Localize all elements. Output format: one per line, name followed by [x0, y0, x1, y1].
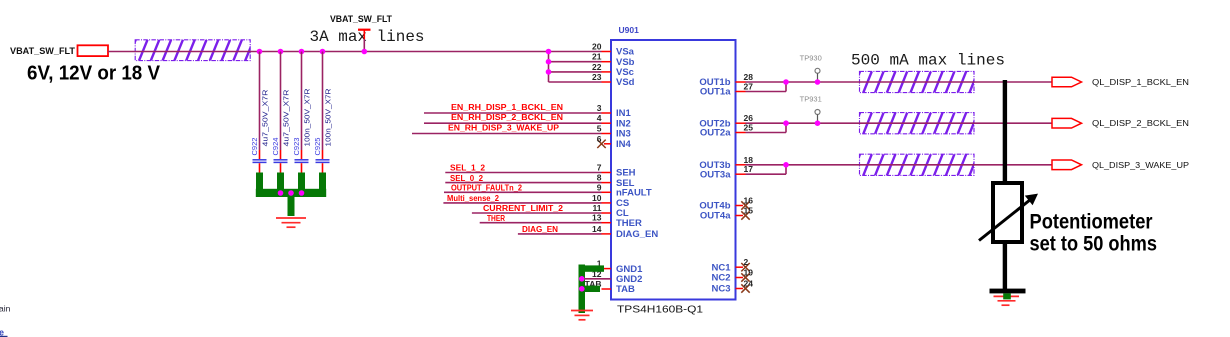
- pin 1 GND1: [597, 259, 643, 275]
- svg-text:QL_DISP_3_WAKE_UP: QL_DISP_3_WAKE_UP: [1092, 161, 1189, 170]
- capacitor C923 value 100n_50V_X7R: [292, 88, 312, 173]
- svg-text:20: 20: [592, 42, 602, 52]
- junction TP930: [815, 79, 821, 85]
- wire net EN_RH_DISP_2_BCKL_EN: [424, 122, 602, 124]
- junction VS branch top: [546, 49, 552, 55]
- svg-text:C923: C923: [292, 138, 301, 156]
- wire net THER: [480, 222, 602, 224]
- svg-text:19: 19: [744, 268, 754, 278]
- junctions on cap ground bus: [278, 190, 284, 196]
- wire rail down to C922: [259, 52, 261, 151]
- svg-text:TPS4H160B-Q1: TPS4H160B-Q1: [617, 304, 703, 316]
- pin 18 OUT3b: [699, 155, 753, 171]
- pin 9 nFAULT: [597, 182, 652, 198]
- svg-text:4: 4: [597, 113, 602, 123]
- svg-text:6V, 12V or 18 V: 6V, 12V or 18 V: [27, 63, 161, 85]
- ferrite bead (3A input line): [127, 40, 265, 61]
- pin 5 IN3: [597, 124, 631, 140]
- svg-text:CURRENT_LIMIT_2: CURRENT_LIMIT_2: [483, 204, 564, 213]
- power symbol VBAT_SW_FLT (bar): [330, 14, 392, 39]
- svg-text:VBAT_SW_FLT: VBAT_SW_FLT: [330, 14, 392, 25]
- ground symbol (U901 GND): [571, 311, 593, 320]
- wire rail down to C925: [322, 52, 324, 151]
- pin 10 CS: [592, 193, 629, 209]
- ground bar (thick black T): [990, 289, 1026, 294]
- pin 26 OUT2b: [699, 113, 753, 129]
- svg-text:OUT4a: OUT4a: [700, 211, 731, 222]
- pin 12 GND2: [592, 269, 642, 285]
- pin 11 CL: [593, 203, 629, 219]
- ground bus U901 (thick green): [579, 265, 605, 314]
- svg-text:QL_DISP_1_BCKL_EN: QL_DISP_1_BCKL_EN: [1092, 78, 1189, 87]
- svg-text:21: 21: [592, 52, 602, 62]
- wire OUT1b to output: [746, 81, 1053, 83]
- svg-text:ain: ain: [0, 304, 11, 314]
- svg-text:C922: C922: [250, 138, 259, 156]
- svg-text:VSd: VSd: [616, 77, 635, 88]
- svg-text:5: 5: [597, 124, 602, 134]
- svg-text:8: 8: [597, 173, 602, 183]
- test point TP930: [800, 54, 822, 83]
- wire to pin 23: [549, 81, 602, 83]
- ground symbol (potentiometer): [994, 296, 1020, 305]
- svg-text:7: 7: [597, 163, 602, 173]
- svg-text:22: 22: [592, 62, 602, 72]
- wire net SEL_1_2: [445, 172, 601, 174]
- pin 16 OUT4b: [699, 196, 753, 212]
- ground symbol (capacitor bank): [276, 218, 306, 227]
- pin 7 SEH: [597, 163, 636, 179]
- svg-text:TAB: TAB: [616, 284, 635, 295]
- pin 20 VSa: [592, 42, 635, 58]
- ground bus of capacitor bank (thick green): [256, 173, 326, 217]
- svg-text:14: 14: [592, 224, 602, 234]
- junction on rail at power tap: [362, 49, 368, 55]
- svg-text:IN4: IN4: [616, 139, 632, 150]
- svg-text:THER: THER: [487, 214, 505, 223]
- svg-text:THER: THER: [616, 218, 642, 229]
- junction on rail for C924: [278, 49, 284, 55]
- pin 28 OUT1b: [699, 72, 753, 88]
- pin 21 VSb: [592, 52, 635, 68]
- svg-text:SEL_1_2: SEL_1_2: [450, 164, 486, 173]
- ferrite bead (output 2 line): [852, 113, 990, 134]
- svg-text:16: 16: [744, 196, 754, 206]
- wire to pin 22: [549, 71, 602, 73]
- junction OUT3 pair: [783, 162, 789, 168]
- pin 6 IN4: [597, 134, 632, 150]
- wire net Multi_sense_2: [443, 202, 601, 204]
- svg-text:EN_RH_DISP_1_BCKL_EN: EN_RH_DISP_1_BCKL_EN: [451, 103, 563, 112]
- ferrite bead (output 3 line): [852, 154, 990, 175]
- test point TP931: [800, 95, 822, 124]
- svg-text:U901: U901: [619, 25, 640, 35]
- junction pin22 branch: [546, 69, 552, 75]
- svg-text:OUTPUT_FAULTn_2: OUTPUT_FAULTn_2: [451, 184, 523, 193]
- pin 3 IN1: [597, 103, 632, 119]
- svg-text:VBAT_SW_FLT: VBAT_SW_FLT: [10, 46, 75, 57]
- svg-text:nFAULT: nFAULT: [616, 188, 652, 199]
- svg-text:SEL_0_2: SEL_0_2: [450, 174, 484, 183]
- wire OUT3b to output: [746, 164, 1053, 166]
- wire net EN_RH_DISP_1_BCKL_EN: [424, 112, 602, 114]
- wire net EN_RH_DISP_3_WAKE_UP: [412, 133, 602, 135]
- wire OUT2b to output: [746, 122, 1053, 124]
- IC U901 (TPS4H160B-Q1) body: [611, 40, 736, 300]
- pin 14 DIAG_EN: [592, 224, 658, 240]
- pin 27 OUT1a: [700, 82, 753, 98]
- svg-text:3: 3: [597, 103, 602, 113]
- annotation Potentiometer set to 50 ohms: [1030, 210, 1158, 255]
- wire OUT2a join: [746, 132, 787, 134]
- svg-text:24: 24: [744, 279, 754, 289]
- ferrite bead (output 1 line): [852, 71, 990, 92]
- svg-text:17: 17: [744, 164, 754, 174]
- svg-text:OUT3a: OUT3a: [700, 169, 731, 180]
- potentiometer R (variable resistor): [979, 183, 1038, 242]
- pin 17 OUT3a: [700, 164, 753, 180]
- wire OUT1a join: [746, 91, 787, 93]
- wire to pin 21: [549, 61, 602, 63]
- capacitor C924 value 4u7_50V_X7R: [271, 89, 291, 173]
- svg-text:NC3: NC3: [711, 284, 730, 295]
- svg-text:3A max lines: 3A max lines: [310, 28, 425, 46]
- junction on rail for C925: [320, 49, 326, 55]
- svg-text:DIAG_EN: DIAG_EN: [522, 225, 558, 234]
- pin 24 NC3: [711, 279, 753, 295]
- offpage connector QL_DISP_3_WAKE_UP: [1052, 160, 1082, 170]
- svg-text:OUT2a: OUT2a: [700, 128, 731, 139]
- wire pot to ground (thick black): [1003, 241, 1007, 291]
- offpage connector QL_DISP_2_BCKL_EN: [1052, 118, 1082, 128]
- svg-text:23: 23: [592, 72, 602, 82]
- svg-text:DIAG_EN: DIAG_EN: [616, 229, 658, 240]
- junction GND2 on bus: [579, 276, 585, 282]
- svg-text:100n_50V_X7R: 100n_50V_X7R: [303, 88, 312, 147]
- pin 13 THER: [592, 213, 642, 229]
- pin 8 SEL: [597, 173, 635, 189]
- svg-text:QL_DISP_2_BCKL_EN: QL_DISP_2_BCKL_EN: [1092, 119, 1189, 128]
- svg-text:500 mA max lines: 500 mA max lines: [851, 52, 1005, 70]
- svg-text:C924: C924: [271, 138, 280, 156]
- wire net CURRENT_LIMIT_2: [472, 212, 602, 214]
- pin 19 NC2: [711, 268, 753, 284]
- svg-text:e: e: [0, 328, 4, 337]
- wire VS branch vertical: [548, 52, 550, 83]
- svg-text:9: 9: [597, 182, 602, 192]
- svg-text:2: 2: [744, 257, 749, 267]
- pin 23 VSd: [592, 72, 635, 88]
- wire OUT3a join: [746, 173, 787, 175]
- capacitor C925 value 100n_50V_X7R: [313, 88, 333, 173]
- wire net DIAG_EN: [518, 233, 602, 235]
- junction TAB on bus: [579, 286, 585, 292]
- offpage connector VBAT_SW_FLT (red box): [78, 45, 109, 56]
- svg-text:15: 15: [744, 206, 754, 216]
- svg-text:6: 6: [597, 134, 602, 144]
- wire rail down to C923: [301, 52, 303, 151]
- svg-text:13: 13: [592, 213, 602, 223]
- wire net SEL_0_2: [445, 182, 601, 184]
- capacitor C922 value 4u7_50V_X7R: [250, 89, 270, 173]
- offpage connector QL_DISP_1_BCKL_EN: [1052, 77, 1082, 87]
- junction pin21 branch: [546, 59, 552, 65]
- pin 15 OUT4a: [700, 206, 753, 222]
- wire net OUTPUT_FAULTn_2: [444, 191, 602, 193]
- svg-text:EN_RH_DISP_3_WAKE_UP: EN_RH_DISP_3_WAKE_UP: [448, 124, 560, 133]
- svg-text:10: 10: [592, 193, 602, 203]
- svg-text:100n_50V_X7R: 100n_50V_X7R: [324, 88, 333, 147]
- junction TP931: [815, 120, 821, 126]
- wire rail down to C924: [280, 52, 282, 151]
- svg-text:25: 25: [744, 123, 754, 133]
- svg-text:C925: C925: [313, 138, 322, 156]
- junction on rail for C922: [257, 49, 263, 55]
- wire potentiometer branch (thick black): [1003, 80, 1007, 182]
- svg-text:TP930: TP930: [800, 54, 822, 63]
- svg-text:set to 50 ohms: set to 50 ohms: [1030, 232, 1158, 255]
- pin 22 VSc: [592, 62, 634, 78]
- svg-text:28: 28: [744, 72, 754, 82]
- junction on rail for C923: [299, 49, 305, 55]
- pin 25 OUT2a: [700, 123, 753, 139]
- junction OUT2 pair: [783, 120, 789, 126]
- wire power tap to rail: [363, 39, 365, 52]
- svg-text:TP931: TP931: [800, 95, 822, 104]
- cropped blue glyph (page edge): [0, 328, 8, 337]
- wire from connector through ferrite to rail: [108, 51, 602, 53]
- svg-text:NC2: NC2: [711, 273, 730, 284]
- svg-text:11: 11: [593, 203, 602, 213]
- pin 2 NC1: [711, 257, 749, 273]
- svg-text:Multi_sense_2: Multi_sense_2: [447, 194, 500, 203]
- pin TAB TAB: [602, 284, 635, 295]
- wire GND2 stub: [585, 278, 611, 280]
- junction OUT1 pair: [783, 79, 789, 85]
- green stub (pot ground): [1003, 293, 1011, 299]
- svg-text:4u7_50V_X7R: 4u7_50V_X7R: [261, 89, 270, 147]
- pin 4 IN2: [597, 113, 631, 129]
- svg-text:4u7_50V_X7R: 4u7_50V_X7R: [282, 89, 291, 147]
- svg-text:OUT1a: OUT1a: [700, 87, 731, 98]
- svg-text:27: 27: [744, 82, 754, 92]
- svg-text:Potentiometer: Potentiometer: [1030, 210, 1153, 233]
- svg-text:EN_RH_DISP_2_BCKL_EN: EN_RH_DISP_2_BCKL_EN: [451, 113, 563, 122]
